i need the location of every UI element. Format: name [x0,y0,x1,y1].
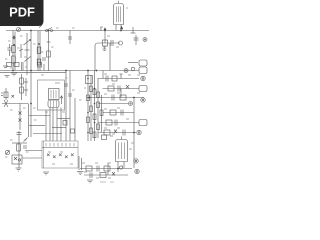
tick E [47,41,51,43]
cap C5 row [112,95,126,101]
capacitor C3 cluster left [7,62,24,71]
cap cluster left of T3 [102,135,114,140]
tick x101 [100,27,102,31]
wire right row y70 [99,70,139,72]
jack J4 [129,102,133,106]
wire right row y112 [103,112,135,114]
wire bottom row y175 [84,174,128,176]
wire right row y97 [90,97,145,99]
capacitor drop x70 [68,31,72,45]
bottom row 2 components [90,172,115,178]
capacitor C1 [7,44,11,56]
socket tick row [46,143,74,147]
wire pair bottom left of row [79,156,82,170]
wire right vertical H [133,98,135,169]
ground below bus2 [5,76,10,78]
AGC arrow left [2,100,28,107]
variable capacitor VC1 [24,33,31,75]
bottom tiny labels [100,181,114,183]
switch S1 [46,28,53,32]
tuning slug arrow [60,96,63,104]
tie wire y125 left [29,125,45,127]
connector CN2 [139,86,147,92]
antenna input terminal [17,28,21,32]
jack J1 [124,69,128,73]
arrow at T1 leg [120,26,123,29]
wire bottom-left link [22,157,42,159]
ground below detector rect [103,46,107,51]
wire link y150 [25,150,42,152]
resistor R2 [12,56,16,63]
transformer T2 lamination stack [48,100,59,108]
bypass cap cluster left [1,88,14,100]
wire drop x110 [109,43,111,71]
cap C7 [115,120,117,126]
PDF badge [0,0,44,26]
wire mid bus [0,70,98,72]
wire bottom row y168 [80,168,132,170]
wire vertical D [37,31,39,72]
IF transformer T1 can [114,1,124,25]
resistor R6 [110,110,116,115]
arrow tick at D rail [39,26,42,28]
resistor R5 row [108,85,129,92]
bottom row components [86,166,110,172]
wire interrow x103 [102,71,104,79]
arrow at x105 [104,27,107,30]
jack J5 [137,130,141,134]
wire right row y78 [99,78,140,80]
node dot A [13,44,15,46]
connector CN1 [139,67,147,74]
wire long vertical C [30,31,32,138]
capacitor C8 ticks [64,84,72,96]
tie wire y134 left [33,133,62,135]
bottom-left cluster [12,131,28,168]
capacitor C4 [106,74,123,82]
jack J7 [135,169,139,173]
transformer T2 winding can [49,89,60,100]
volume pot P1 [5,150,9,154]
junction diamond [12,36,16,40]
chassis box B2 [42,141,78,168]
svg-text:PDF: PDF [9,5,35,20]
wire left vertical B [14,32,16,71]
wire drop x108 [107,163,109,176]
jack J6 [134,159,138,163]
top box of column [86,76,93,84]
jack J8 [143,38,147,42]
trimmer line [19,44,23,58]
lamp between T3 legs [119,166,122,169]
small part above bus2 [38,63,45,71]
wire T3 leg 1 [117,162,119,173]
resistor R7 [106,120,112,125]
ground left [11,73,17,76]
ground bottom-left [16,168,22,171]
wire interrow x121 [120,89,122,98]
wire right row y103 [99,103,129,105]
tie wire y118 [57,118,70,120]
wire vertical D2 [39,31,41,72]
wire right row y122 [99,122,140,124]
jack J3 [141,98,145,102]
tie wire y115 left [29,115,50,117]
wire top bus [6,30,149,32]
crossing marks [19,104,22,131]
node dot D [38,43,40,45]
node dots [12,30,135,170]
AVC divider column [20,74,28,100]
resistor R3b [37,59,41,65]
resistor R3 [37,47,41,54]
jack J2 [141,76,145,80]
output transformer T3 can [116,137,128,162]
connector CN4 [139,60,147,66]
ground mid-left [3,66,8,68]
wire T2 pin drops [46,108,61,142]
wire vertical E [48,31,50,72]
capacitor C2 [42,58,46,60]
wire T3 leg 2 [123,162,125,169]
wire vertical C2b [28,104,30,138]
wire corner to detector [95,43,120,71]
wire drop x105 [104,31,106,44]
varicap right top [131,27,139,45]
column junction dots [87,78,95,134]
wire right row y132 [99,132,137,134]
oscillator coil box [38,80,65,110]
tie wire y127 [52,127,66,129]
wire vertical G [69,71,71,142]
cap C6 [121,110,123,116]
ground bottom mid [87,180,93,183]
pilot lamp [131,67,135,71]
ground at x80 [77,172,84,175]
small part at tie [63,121,75,134]
ground below B2 [43,172,49,175]
resistor chain in column [87,86,104,138]
wire right row y88 [103,88,140,90]
wire right link [128,62,138,64]
cluster y132 [104,130,125,136]
value label specks [5,8,140,178]
wire left vertical A [12,31,14,72]
detector row components [103,40,123,46]
resistor R4 [47,51,51,57]
wire vertical G2 [74,98,76,141]
wire T1 leg 2 [120,25,122,31]
wire vertical F [65,71,67,142]
crystal marks row [47,154,74,159]
wire mid bus lower [0,71,66,73]
wire T1 leg 1 [115,25,117,31]
terminal strip column rails [88,71,102,142]
connector CN3 [139,120,147,126]
resistor R1 [12,46,16,53]
